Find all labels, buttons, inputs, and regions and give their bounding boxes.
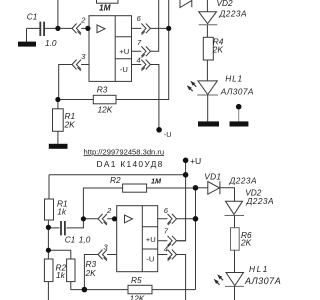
svg-text:http://299792458.3dn.ru: http://299792458.3dn.ru	[84, 147, 165, 156]
svg-text:R2: R2	[110, 175, 121, 185]
svg-text:4: 4	[164, 244, 168, 253]
svg-text:Д223А: Д223А	[219, 9, 247, 19]
svg-text:2K: 2K	[240, 238, 252, 248]
svg-text:VD2: VD2	[217, 0, 234, 8]
svg-text:R5: R5	[131, 275, 142, 285]
svg-text:Д223А: Д223А	[246, 196, 274, 206]
svg-text:-U: -U	[146, 255, 154, 264]
svg-text:2K: 2K	[64, 119, 76, 129]
svg-text:1k: 1k	[56, 270, 66, 280]
svg-text:C1: C1	[65, 234, 76, 244]
svg-text:2K: 2K	[212, 44, 224, 54]
svg-text:VD1: VD1	[204, 171, 221, 181]
svg-text:2: 2	[80, 16, 86, 25]
svg-text:12K: 12K	[98, 104, 113, 114]
svg-text:HL1: HL1	[249, 264, 269, 274]
svg-text:4: 4	[137, 56, 141, 65]
svg-text:1M: 1M	[151, 177, 162, 186]
svg-text:1,0: 1,0	[79, 234, 91, 244]
svg-text:Д223А: Д223А	[229, 175, 257, 185]
svg-text:+U: +U	[119, 47, 129, 56]
svg-text:DA1 К140УД8: DA1 К140УД8	[97, 159, 164, 169]
svg-text:+U: +U	[146, 235, 156, 244]
svg-text:HL1: HL1	[225, 74, 243, 84]
svg-text:R3: R3	[97, 84, 108, 94]
svg-text:12K: 12K	[130, 293, 145, 300]
svg-text:-U: -U	[120, 65, 128, 74]
svg-text:+U: +U	[190, 156, 201, 166]
svg-text:-U: -U	[164, 130, 172, 139]
svg-text:C1: C1	[27, 12, 38, 22]
svg-text:1M: 1M	[99, 3, 112, 13]
svg-text:2K: 2K	[85, 268, 97, 278]
svg-text:1.0: 1.0	[45, 38, 57, 48]
svg-text:1k: 1k	[57, 206, 67, 216]
svg-text:2: 2	[106, 206, 112, 215]
svg-text:АЛ307А: АЛ307А	[244, 276, 281, 286]
svg-text:АЛ307А: АЛ307А	[220, 86, 254, 96]
